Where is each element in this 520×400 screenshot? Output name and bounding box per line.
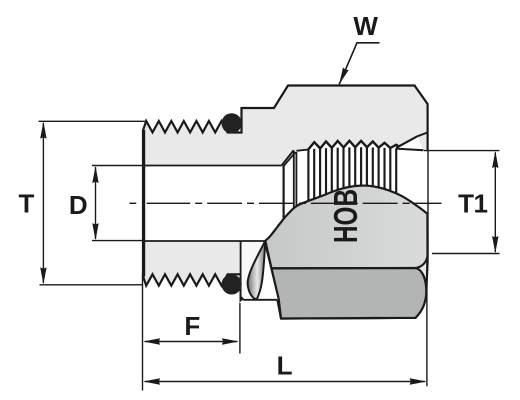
dimension T1 line <box>494 152 496 252</box>
dimension T line <box>42 123 44 283</box>
centerline <box>129 202 136 204</box>
bore cavity <box>145 166 264 241</box>
dimension D line <box>95 167 97 239</box>
dimension L line <box>145 381 425 383</box>
nut face bottom edge <box>241 241 278 300</box>
dimension F line <box>145 341 237 343</box>
svg-text:L: L <box>277 350 293 380</box>
svg-text:W: W <box>353 11 378 41</box>
female thread teeth <box>308 142 320 149</box>
entry vertical lines <box>283 166 285 220</box>
entry chamfer lines <box>282 150 294 165</box>
dimension F extension lines <box>142 275 144 391</box>
fitting body silhouette <box>143 86 428 319</box>
corner notch <box>247 241 279 300</box>
thread curtain lines <box>307 149 309 202</box>
thread mouth window <box>264 147 427 241</box>
dimension D extension lines <box>92 165 144 167</box>
bore bottom line <box>144 240 241 242</box>
svg-text:F: F <box>184 311 200 341</box>
lower mouth region <box>242 241 265 299</box>
fitting left face <box>142 130 145 277</box>
lower hex flat band <box>272 268 427 319</box>
dimension T extension lines <box>39 120 147 122</box>
dimension L extension line <box>426 262 428 386</box>
svg-text:D: D <box>69 190 88 220</box>
W leader line <box>339 43 379 85</box>
mouth top edge <box>296 150 308 151</box>
o-ring top <box>222 113 242 133</box>
svg-text:HOB: HOB <box>327 189 364 243</box>
bore top line <box>144 165 282 167</box>
svg-text:T: T <box>19 189 35 219</box>
svg-text:T1: T1 <box>458 188 487 218</box>
dimension T1 extension lines <box>424 150 500 152</box>
thread runout wedge <box>396 136 423 150</box>
o-ring bottom <box>222 274 242 294</box>
